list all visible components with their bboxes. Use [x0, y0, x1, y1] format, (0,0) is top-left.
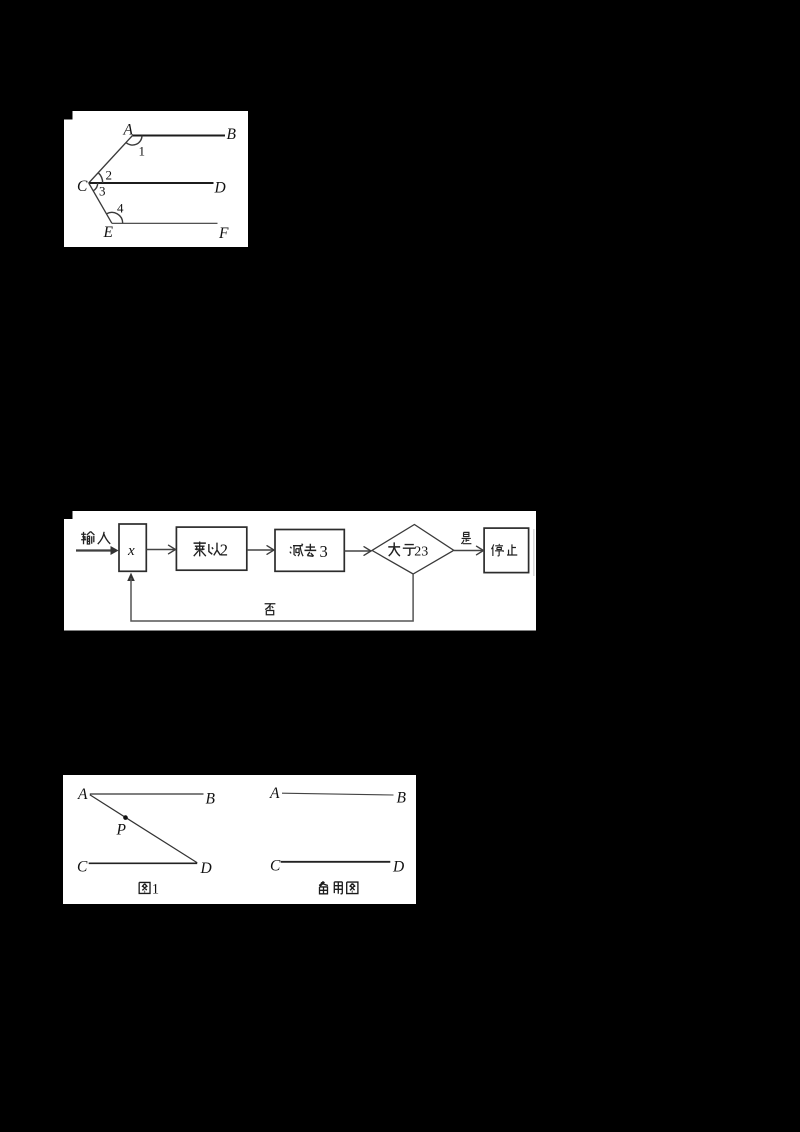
svg-text:D: D: [392, 859, 404, 876]
svg-text:P: P: [116, 822, 127, 839]
svg-text:B: B: [397, 790, 407, 807]
svg-text:4: 4: [117, 201, 124, 216]
svg-text:23: 23: [414, 545, 428, 560]
svg-text:A: A: [77, 786, 88, 803]
svg-text:1: 1: [152, 881, 159, 897]
svg-text:A: A: [269, 785, 280, 802]
svg-text:B: B: [206, 791, 216, 808]
svg-text:3: 3: [99, 184, 106, 199]
svg-text:D: D: [200, 860, 212, 877]
svg-text:A: A: [123, 122, 134, 139]
svg-text:C: C: [270, 858, 281, 875]
svg-text:2: 2: [106, 168, 113, 183]
svg-text:E: E: [103, 224, 114, 241]
svg-text:2: 2: [220, 541, 228, 560]
svg-text:B: B: [227, 126, 237, 143]
svg-text:3: 3: [320, 542, 328, 561]
svg-text:D: D: [214, 180, 226, 197]
svg-text:x: x: [127, 543, 135, 559]
svg-text:F: F: [218, 225, 229, 242]
svg-text:1: 1: [139, 144, 146, 159]
svg-text:C: C: [77, 178, 88, 195]
svg-text:C: C: [77, 859, 88, 876]
